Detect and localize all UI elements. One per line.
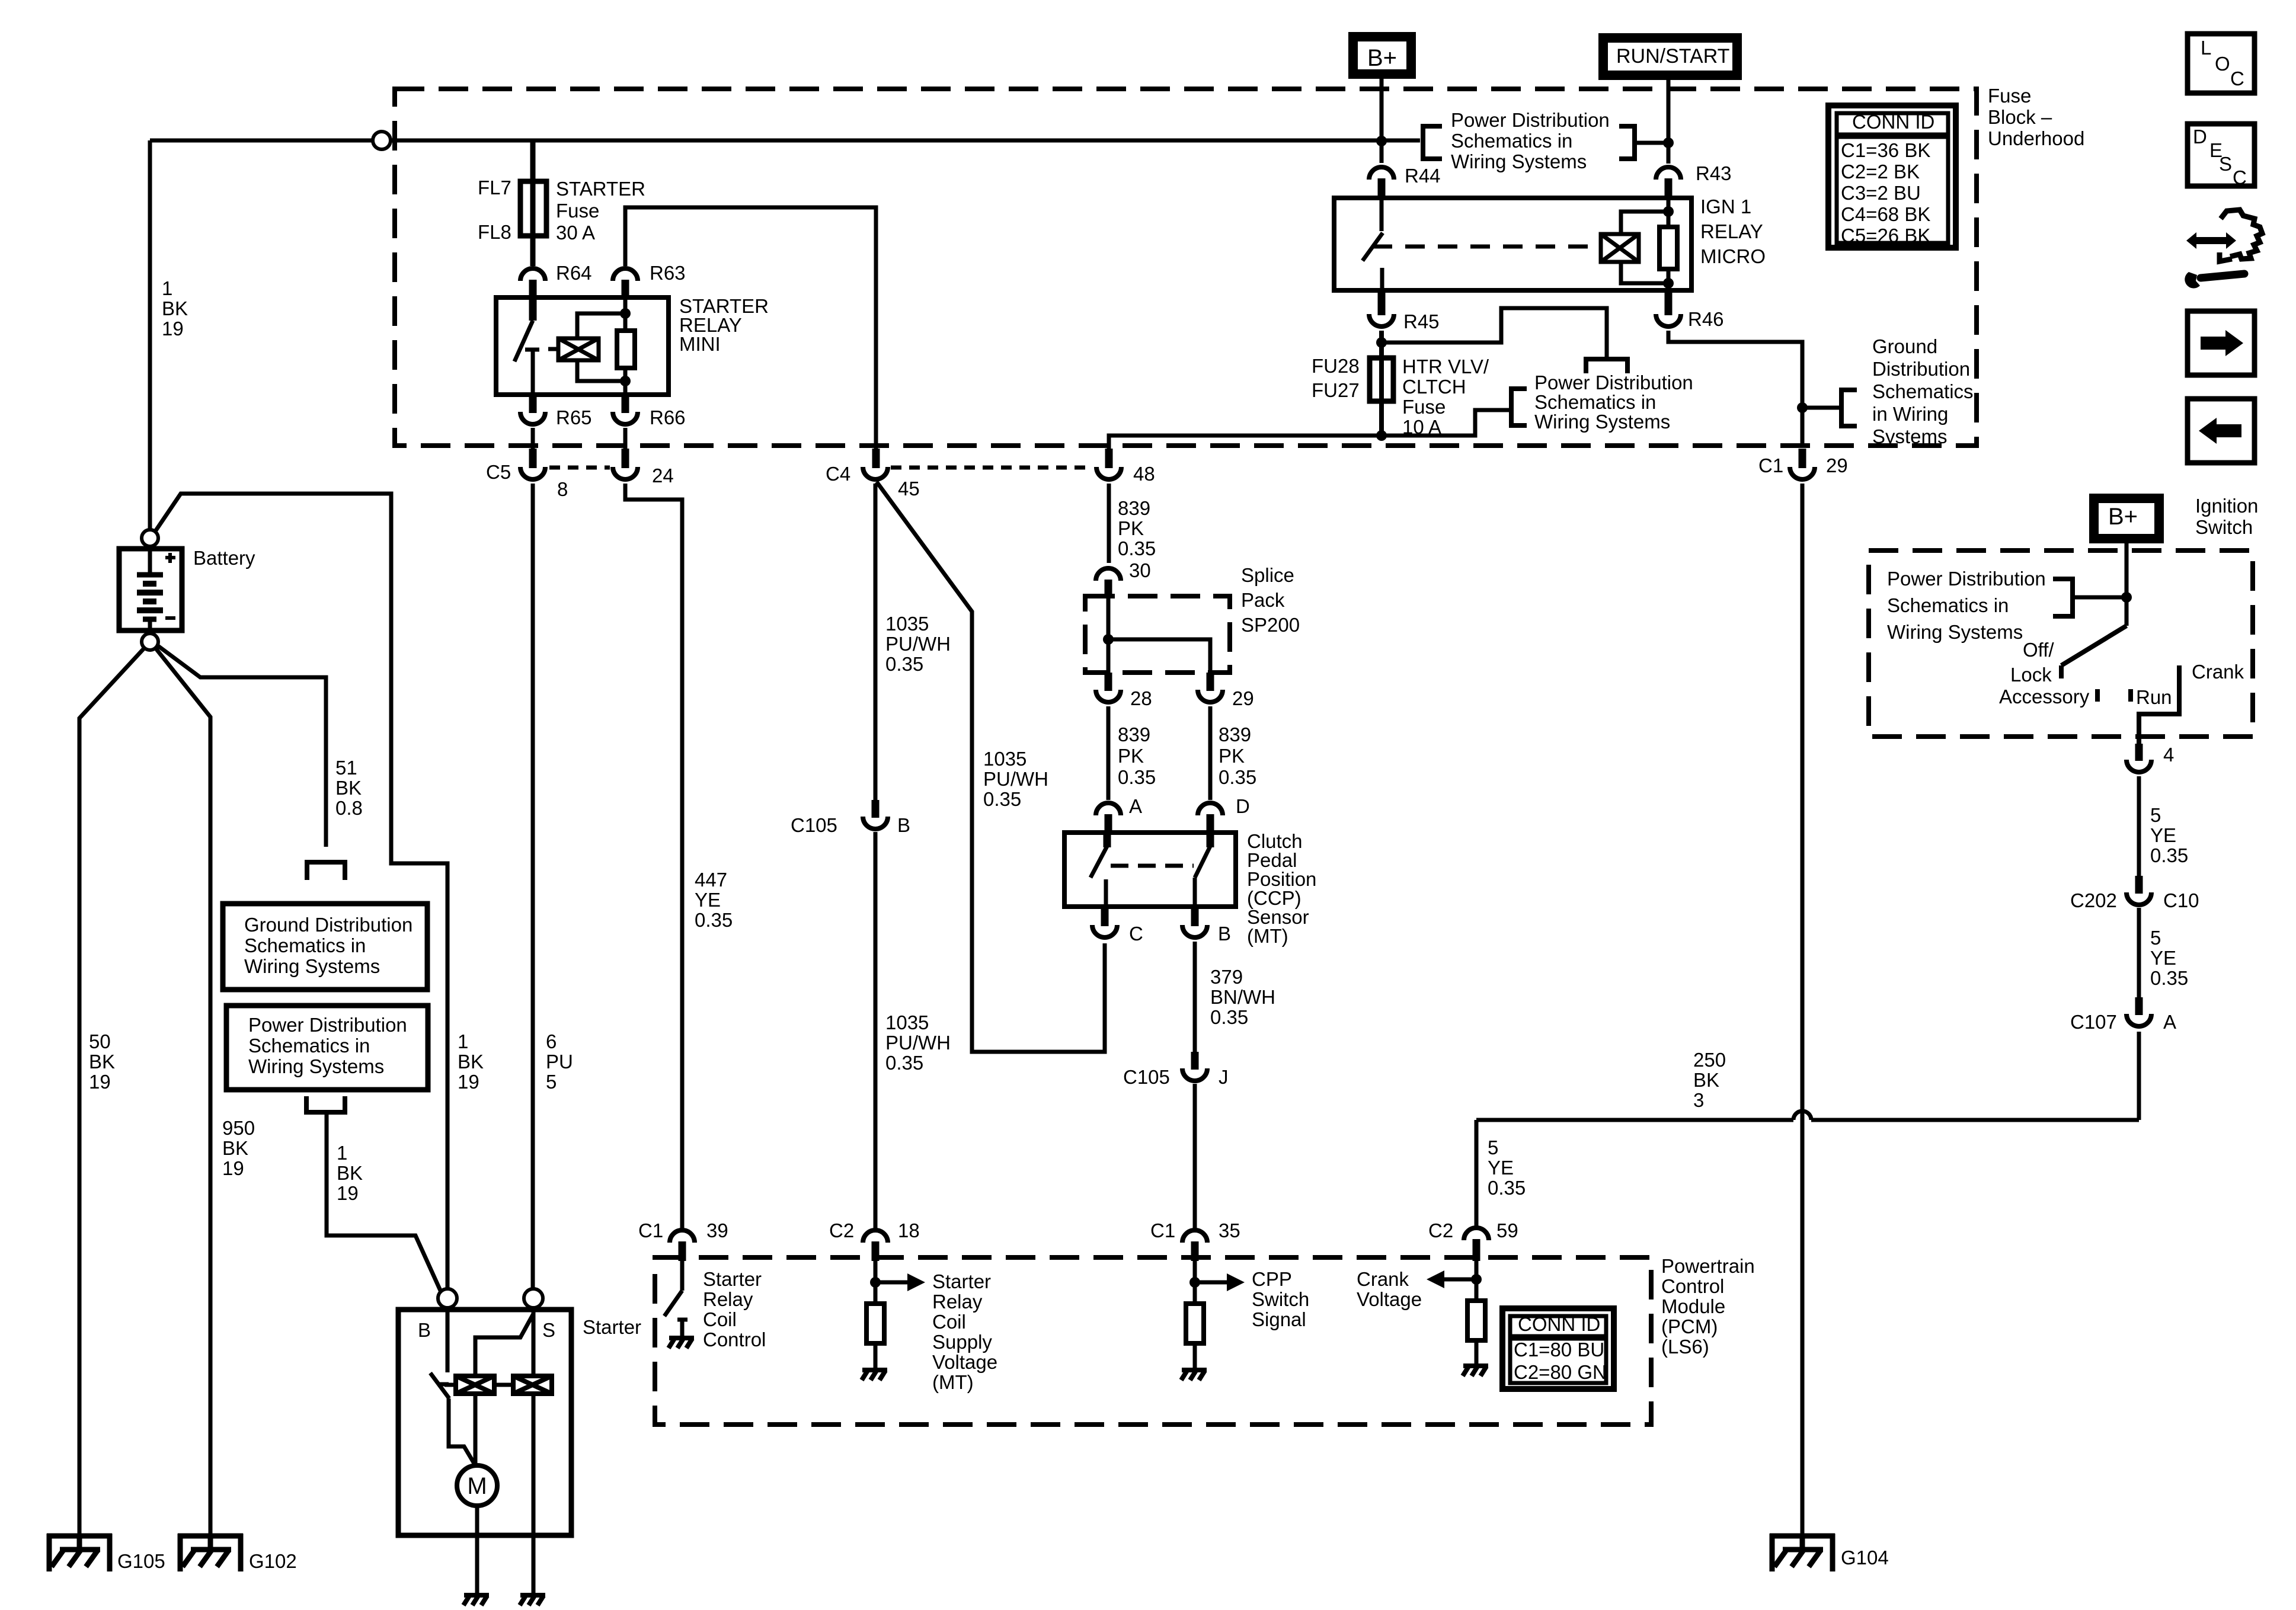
CCP switch left — [1104, 833, 1111, 847]
IGN1 relay internal resistor — [1659, 227, 1677, 269]
svg-text:Lock: Lock — [2010, 664, 2052, 686]
svg-text:PK: PK — [1118, 745, 1144, 767]
svg-text:B+: B+ — [2108, 504, 2138, 530]
svg-text:1035: 1035 — [983, 748, 1027, 770]
arrow: CPP Switch Signal — [1195, 1281, 1227, 1285]
bracket left of reference text (FU27 branch) — [1511, 389, 1527, 425]
node: junction to ground distribution reference — [1797, 402, 1808, 413]
svg-text:MINI: MINI — [679, 333, 721, 355]
connector pin C — [1101, 907, 1109, 926]
connector pin A — [1096, 803, 1121, 815]
svg-text:Run: Run — [2136, 686, 2172, 708]
svg-text:L: L — [2201, 37, 2211, 59]
svg-text:Signal: Signal — [1252, 1308, 1306, 1330]
svg-text:1035: 1035 — [885, 1012, 929, 1033]
starter relay coil symbol — [558, 338, 599, 360]
CCP linkage dashed — [1111, 864, 1194, 868]
svg-text:Coil: Coil — [703, 1308, 737, 1330]
B+ power tag box (ignition) — [2094, 498, 2159, 539]
svg-text:D: D — [1236, 795, 1250, 817]
svg-text:Voltage: Voltage — [1357, 1288, 1422, 1310]
svg-text:R45: R45 — [1403, 311, 1440, 332]
bracket left of Ground Distribution text — [1841, 390, 1857, 426]
ground (starter motor) — [463, 1595, 489, 1605]
ignition switch wiper — [2061, 626, 2126, 665]
svg-text:50: 50 — [89, 1030, 111, 1052]
ground (PCM CPP) — [1181, 1370, 1207, 1380]
ground (PCM coil control) — [669, 1338, 694, 1348]
IGN 1 relay: R44 pin — [1380, 141, 1384, 163]
svg-text:Starter: Starter — [932, 1270, 991, 1292]
RUN/START power tag box — [1603, 38, 1737, 75]
svg-text:839: 839 — [1118, 497, 1150, 519]
svg-text:YE: YE — [695, 889, 721, 911]
svg-text:1: 1 — [337, 1142, 347, 1164]
svg-text:8: 8 — [557, 478, 568, 500]
svg-text:0.8: 0.8 — [335, 797, 363, 819]
svg-text:RUN/START: RUN/START — [1616, 45, 1729, 68]
svg-text:C105: C105 — [1123, 1066, 1170, 1088]
svg-text:Voltage: Voltage — [932, 1351, 997, 1373]
bracket above Ground Distribution box — [307, 862, 345, 880]
wire hop over 250 BK wire — [1793, 1111, 1811, 1120]
wire: C5-8 down to starter S terminal — [531, 484, 535, 1289]
node: junction with reference bracket — [1663, 137, 1674, 148]
svg-text:S: S — [2219, 153, 2232, 175]
svg-text:Fuse: Fuse — [1988, 85, 2031, 107]
svg-text:C2: C2 — [829, 1219, 854, 1241]
svg-text:S: S — [542, 1319, 555, 1341]
svg-text:48: 48 — [1133, 463, 1155, 485]
CONN ID table (fuse block) — [1828, 105, 1956, 248]
PCM resistor (supply) — [866, 1304, 884, 1343]
svg-text:Ignition: Ignition — [2195, 495, 2258, 517]
wire: battery positive feed to bus — [148, 140, 152, 530]
connector pin R63 — [613, 268, 638, 281]
node: bus junction at B+ drop — [1376, 136, 1387, 146]
svg-text:Splice: Splice — [1241, 564, 1294, 586]
svg-text:28: 28 — [1130, 687, 1152, 709]
run contact tick — [2128, 689, 2133, 702]
svg-text:Switch: Switch — [2195, 516, 2253, 538]
battery plus sign — [165, 556, 175, 559]
starter relay switch — [529, 297, 537, 321]
svg-text:1035: 1035 — [885, 613, 929, 635]
svg-text:R44: R44 — [1405, 165, 1441, 187]
starter solenoid hold-in winding — [456, 1376, 494, 1394]
svg-text:Crank: Crank — [2192, 661, 2244, 683]
svg-text:C4: C4 — [826, 463, 850, 485]
svg-text:M: M — [467, 1473, 487, 1499]
ground G104 — [1770, 1534, 1835, 1571]
svg-text:Supply: Supply — [932, 1331, 992, 1353]
svg-text:CONN ID: CONN ID — [1852, 111, 1934, 133]
Ground Distribution Schematics in Wiring Systems box — [223, 904, 427, 990]
icon box: DESC — [2188, 124, 2255, 186]
ground G105 — [47, 1534, 112, 1571]
wire: R65 to C5 — [531, 428, 535, 452]
svg-text:Ground Distribution: Ground Distribution — [244, 914, 412, 936]
svg-text:G102: G102 — [249, 1550, 297, 1572]
svg-text:Crank: Crank — [1357, 1268, 1409, 1290]
wire: battery negative to ground distribution reference (51 BK) — [156, 645, 326, 847]
svg-text:RELAY: RELAY — [1700, 220, 1763, 242]
wire: 24 jog to PCM C1-39 column — [625, 484, 682, 1228]
svg-text:0.35: 0.35 — [1488, 1177, 1526, 1199]
icon box: left arrow — [2188, 399, 2255, 463]
svg-text:0.35: 0.35 — [885, 653, 923, 675]
svg-text:HTR VLV/: HTR VLV/ — [1402, 356, 1489, 377]
svg-text:PK: PK — [1219, 745, 1245, 767]
svg-text:C2=80 GN: C2=80 GN — [1514, 1361, 1607, 1383]
svg-text:839: 839 — [1118, 724, 1150, 745]
svg-text:Fuse: Fuse — [556, 200, 599, 222]
wire: right bracket to RUN/START drop — [1635, 141, 1668, 145]
svg-text:BK: BK — [1693, 1069, 1719, 1091]
svg-text:BK: BK — [458, 1051, 484, 1073]
svg-text:C1: C1 — [1758, 454, 1783, 476]
svg-text:R66: R66 — [650, 406, 686, 428]
svg-text:Starter: Starter — [583, 1316, 641, 1338]
svg-text:FU28: FU28 — [1312, 355, 1360, 377]
connector C1 pin 35 — [1182, 1230, 1207, 1243]
svg-text:Off/: Off/ — [2023, 639, 2054, 661]
svg-text:Systems: Systems — [1872, 425, 1948, 447]
icon: schematic part with double arrow and wrench — [2220, 210, 2262, 261]
svg-text:C: C — [1129, 923, 1143, 945]
wire: 45 splice diagonal to CPP pin C — [877, 482, 1105, 1052]
svg-text:19: 19 — [337, 1182, 359, 1204]
starter internal S feed — [532, 1310, 536, 1376]
crossover circle at fuse block boundary — [373, 132, 391, 149]
svg-text:250: 250 — [1693, 1049, 1726, 1071]
connector pin 30 — [1096, 568, 1121, 581]
wire: battery negative to G102 (950 BK) — [155, 647, 210, 1536]
svg-text:18: 18 — [898, 1219, 920, 1241]
ground G102 — [178, 1534, 243, 1571]
svg-text:Schematics: Schematics — [1872, 380, 1974, 402]
svg-text:Underhood: Underhood — [1988, 127, 2084, 149]
svg-text:Power Distribution: Power Distribution — [248, 1014, 407, 1036]
svg-text:YE: YE — [2150, 947, 2176, 969]
svg-text:(PCM): (PCM) — [1661, 1315, 1718, 1337]
svg-text:839: 839 — [1219, 724, 1251, 745]
svg-text:D: D — [2193, 126, 2207, 148]
svg-text:B: B — [418, 1319, 431, 1341]
svg-text:MICRO: MICRO — [1700, 245, 1766, 267]
svg-text:Control: Control — [703, 1329, 766, 1350]
fusible link FL7/FL8 wire from bus — [530, 140, 536, 266]
PCM supply voltage leg — [874, 1261, 878, 1304]
starter internal switch to motor — [449, 1398, 475, 1465]
in-line connector C107 / A — [2135, 997, 2143, 1015]
svg-text:(MT): (MT) — [932, 1371, 974, 1393]
IGN1 relay coil branch — [1667, 198, 1671, 227]
wire: 839 PK from 48 to splice pack 30 — [1107, 484, 1111, 563]
wire: B+ into ignition switch — [2125, 539, 2129, 626]
wire: B+ tag to bus — [1380, 74, 1384, 140]
ground (PCM supply) — [862, 1370, 887, 1380]
splice SP200 internal wires — [1107, 598, 1111, 674]
svg-text:19: 19 — [222, 1157, 244, 1179]
fuse block - underhood dashed border — [395, 89, 1977, 446]
svg-text:Schematics in: Schematics in — [1534, 391, 1656, 413]
svg-text:C4=68 BK: C4=68 BK — [1841, 203, 1930, 225]
svg-text:5: 5 — [546, 1071, 557, 1093]
connector pin D — [1198, 803, 1223, 815]
wire: 839 PK to CPP pin D — [1208, 706, 1213, 800]
svg-text:Ground: Ground — [1872, 335, 1937, 357]
arrow: Starter Relay Coil Supply Voltage — [875, 1281, 907, 1285]
svg-text:29: 29 — [1232, 687, 1254, 709]
svg-text:(MT): (MT) — [1247, 925, 1288, 947]
svg-text:PK: PK — [1118, 517, 1144, 539]
dashed connector row line C5-24 — [549, 466, 610, 470]
wire: 839 PK to CPP pin A — [1107, 706, 1111, 800]
PCM resistor (CPP) — [1186, 1304, 1204, 1343]
connector pin R46 — [1665, 290, 1673, 315]
battery positive terminal — [142, 530, 158, 546]
svg-text:Wiring Systems: Wiring Systems — [1451, 151, 1587, 172]
connector pin R66 — [622, 395, 629, 413]
bracket left of top reference text — [1423, 126, 1442, 159]
wire: C105-B down to PCM C2-18 — [874, 832, 878, 1228]
svg-text:Schematics in: Schematics in — [248, 1035, 370, 1057]
connector C2 pin 18 — [863, 1230, 888, 1243]
clutch pedal position sensor box — [1064, 833, 1236, 907]
svg-text:Block –: Block – — [1988, 106, 2052, 128]
svg-text:SP200: SP200 — [1241, 614, 1300, 636]
svg-text:B: B — [1218, 923, 1231, 945]
svg-text:STARTER: STARTER — [556, 178, 645, 200]
svg-text:0.35: 0.35 — [1210, 1006, 1248, 1028]
svg-text:5: 5 — [2150, 927, 2161, 949]
connector pin 24 — [613, 467, 638, 479]
svg-text:PU: PU — [546, 1051, 573, 1073]
CONN ID table (PCM) — [1502, 1308, 1614, 1389]
svg-text:O: O — [2215, 53, 2230, 75]
PCM resistor (crank) — [1467, 1301, 1485, 1340]
ground (PCM crank) — [1463, 1366, 1488, 1376]
connector C5 pin 8 — [520, 467, 545, 479]
svg-text:CONN ID: CONN ID — [1518, 1313, 1600, 1335]
wire: 5 YE to C202 — [2137, 776, 2141, 877]
svg-text:24: 24 — [652, 465, 674, 486]
svg-text:4: 4 — [2163, 744, 2174, 766]
svg-text:Powertrain: Powertrain — [1661, 1255, 1755, 1277]
fuse FL7/FL8 STARTER Fuse 30A — [520, 181, 546, 236]
svg-text:B+: B+ — [1367, 45, 1397, 71]
wire: R45 to FU28 fuse and splice — [1379, 331, 1384, 436]
wire: FU27 junction to power distribution reference bracket — [1382, 410, 1511, 436]
starter B terminal circle — [438, 1289, 457, 1308]
battery minus sign — [165, 616, 175, 620]
svg-text:YE: YE — [1488, 1157, 1514, 1179]
svg-text:0.35: 0.35 — [695, 909, 733, 931]
in-line connector C105 pin J — [1191, 1052, 1199, 1070]
svg-text:(LS6): (LS6) — [1661, 1336, 1709, 1358]
svg-text:Wiring Systems: Wiring Systems — [248, 1055, 384, 1077]
svg-text:30 A: 30 A — [556, 222, 595, 244]
connector pin 48 — [1105, 449, 1113, 468]
bracket above reference text (R45 branch) — [1586, 359, 1627, 373]
svg-text:0.35: 0.35 — [2150, 967, 2188, 989]
svg-text:5: 5 — [2150, 804, 2161, 826]
connector pin 28 — [1105, 673, 1112, 691]
starter motor M — [457, 1465, 497, 1506]
starter relay mini box — [496, 297, 669, 395]
starter relay internal resistor — [617, 331, 635, 368]
wire: battery negative to G105 (50 BK) — [79, 647, 145, 1536]
wire: R46 down to C1-29 — [1668, 331, 1802, 447]
svg-text:C5=26 BK: C5=26 BK — [1841, 225, 1930, 247]
svg-text:C1=80 BU: C1=80 BU — [1514, 1339, 1604, 1361]
starter solenoid pull-in winding — [513, 1376, 552, 1394]
svg-text:59: 59 — [1496, 1219, 1518, 1241]
svg-text:950: 950 — [222, 1117, 255, 1139]
svg-text:C5: C5 — [486, 461, 511, 483]
svg-text:Power Distribution: Power Distribution — [1534, 372, 1693, 393]
connector C2 pin 59 — [1464, 1228, 1489, 1240]
connector C1 pin 39 — [670, 1230, 695, 1243]
starter S terminal circle — [524, 1289, 543, 1308]
svg-text:Schematics in: Schematics in — [1887, 594, 2009, 616]
fuse FU28/FU27 HTR VLV/CLTCH 10A — [1370, 358, 1393, 401]
wire: FU27 output to connector 48 — [1109, 436, 1382, 452]
wire: 1 BK 19 ground lead to starter B terminal — [327, 1112, 441, 1292]
svg-text:Power Distribution: Power Distribution — [1451, 109, 1610, 131]
svg-text:C: C — [2233, 167, 2247, 188]
IGN 1 relay: R43 pin — [1656, 167, 1681, 180]
svg-text:Accessory: Accessory — [1999, 686, 2090, 708]
svg-text:A: A — [2163, 1011, 2176, 1033]
wire: 379 BN/WH from CCP B to C105-J — [1193, 942, 1197, 1053]
wire: battery positive to starter B (600 cable) — [155, 494, 447, 1289]
svg-text:3: 3 — [1693, 1089, 1704, 1111]
svg-text:IGN 1: IGN 1 — [1700, 196, 1751, 217]
svg-text:5: 5 — [1488, 1137, 1498, 1158]
svg-text:Module: Module — [1661, 1295, 1725, 1317]
svg-text:30: 30 — [1129, 559, 1151, 581]
svg-text:BK: BK — [222, 1137, 248, 1159]
PCM CPP switch signal leg — [1193, 1261, 1197, 1304]
svg-text:0.35: 0.35 — [1118, 766, 1156, 788]
svg-text:0.35: 0.35 — [983, 788, 1021, 810]
svg-text:Distribution: Distribution — [1872, 358, 1970, 380]
svg-text:19: 19 — [458, 1071, 479, 1093]
ignition switch dashed box — [1869, 550, 2253, 737]
connector pin R64 — [520, 268, 545, 281]
icon box: LOC — [2188, 34, 2255, 93]
svg-text:0.35: 0.35 — [885, 1052, 923, 1074]
svg-text:Starter: Starter — [703, 1268, 762, 1290]
svg-text:1: 1 — [162, 277, 172, 299]
wire: C105-J down to PCM C1-35 — [1193, 1084, 1197, 1228]
svg-text:1: 1 — [458, 1030, 468, 1052]
svg-text:BK: BK — [162, 297, 188, 319]
svg-text:A: A — [1129, 795, 1142, 817]
starter internal B contact — [446, 1310, 450, 1372]
svg-text:C10: C10 — [2163, 889, 2199, 911]
svg-text:YE: YE — [2150, 824, 2176, 846]
svg-text:C105: C105 — [791, 814, 837, 836]
svg-text:29: 29 — [1826, 454, 1848, 476]
svg-text:J: J — [1219, 1066, 1229, 1088]
dashed connector row line C4-48 — [891, 466, 1092, 470]
svg-text:Wiring Systems: Wiring Systems — [1887, 621, 2023, 643]
svg-text:Pack: Pack — [1241, 589, 1285, 611]
wire: 1035 PU/WH from 45 to C105-B — [874, 484, 878, 801]
starter solenoid hold-in branch — [475, 1314, 533, 1376]
svg-text:C107: C107 — [2070, 1011, 2117, 1033]
connector C1 pin 29 — [1799, 449, 1806, 468]
svg-text:CLTCH: CLTCH — [1402, 376, 1466, 398]
starter box — [398, 1310, 571, 1535]
icon: wrench — [2185, 272, 2200, 289]
svg-text:C202: C202 — [2070, 889, 2117, 911]
splice pack SP200 dashed box — [1085, 596, 1230, 673]
in-line connector C105 pin B — [872, 800, 880, 818]
svg-text:FU27: FU27 — [1312, 379, 1360, 401]
wire: RUN/START tag down to R43 — [1667, 75, 1671, 164]
svg-text:FL8: FL8 — [478, 221, 511, 243]
B+ power tag box (top) — [1353, 37, 1411, 74]
svg-text:Wiring Systems: Wiring Systems — [1534, 411, 1670, 433]
svg-text:Coil: Coil — [932, 1311, 966, 1333]
svg-text:in Wiring: in Wiring — [1872, 403, 1948, 425]
svg-text:19: 19 — [162, 318, 184, 340]
node: FU27 output junction — [1376, 430, 1387, 441]
svg-text:447: 447 — [695, 869, 727, 891]
IGN 1 relay micro box — [1334, 198, 1691, 290]
wire: R45 branch to power distribution reference — [1382, 308, 1607, 358]
svg-text:0.35: 0.35 — [1219, 766, 1256, 788]
icon box: right arrow — [2188, 311, 2255, 375]
svg-text:G104: G104 — [1841, 1547, 1889, 1569]
wire: R66 to 24 — [623, 428, 628, 452]
svg-text:G105: G105 — [117, 1550, 165, 1572]
svg-text:Fuse: Fuse — [1402, 396, 1446, 418]
svg-text:PU/WH: PU/WH — [885, 633, 951, 655]
wire: pin 45 feed up to R63 (inside fuse block) — [625, 207, 876, 452]
svg-text:R46: R46 — [1688, 308, 1724, 330]
svg-text:B: B — [897, 814, 910, 836]
connector pin B (CCP) — [1191, 907, 1199, 926]
svg-text:C2=2 BK: C2=2 BK — [1841, 161, 1920, 183]
svg-text:FL7: FL7 — [478, 177, 511, 199]
svg-text:C1: C1 — [1150, 1219, 1175, 1241]
Power Distribution Schematics in Wiring Systems box — [226, 1006, 428, 1090]
svg-text:Schematics in: Schematics in — [1451, 130, 1572, 152]
svg-text:Power Distribution: Power Distribution — [1887, 568, 2046, 590]
in-line connector C202 / C10 — [2135, 876, 2143, 894]
svg-text:35: 35 — [1219, 1219, 1240, 1241]
connector pin 29 (splice) — [1207, 673, 1214, 691]
bracket below Power Distribution box — [306, 1096, 345, 1112]
IGN1 relay linkage dashed — [1373, 245, 1597, 249]
svg-text:R64: R64 — [556, 262, 592, 284]
svg-text:Schematics in: Schematics in — [244, 934, 366, 956]
CCP switch right — [1207, 833, 1214, 847]
ground (starter solenoid) — [520, 1595, 545, 1605]
accessory contact tick — [2095, 689, 2100, 702]
svg-text:BK: BK — [335, 777, 362, 799]
wire: main B+ bus — [150, 139, 373, 143]
svg-text:CPP: CPP — [1252, 1268, 1292, 1290]
svg-text:0.35: 0.35 — [1118, 537, 1156, 559]
svg-text:Relay: Relay — [703, 1288, 753, 1310]
connector C4 pin 45 — [872, 449, 880, 468]
